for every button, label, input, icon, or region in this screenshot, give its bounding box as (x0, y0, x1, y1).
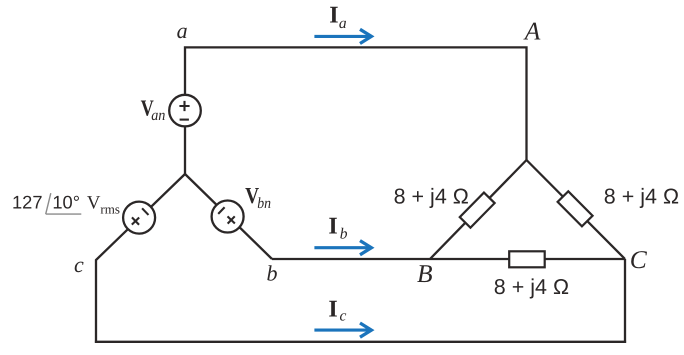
current arrow Ic (314, 323, 371, 337)
wire delta left A-B (430, 160, 527, 259)
resistor A-C 8+j4 (558, 191, 593, 226)
svg-text:a: a (339, 15, 347, 32)
angle symbol (46, 193, 82, 214)
wire neutral to c corner (96, 174, 185, 343)
svg-text:a: a (177, 18, 188, 43)
svg-text:b: b (267, 261, 278, 286)
wire C down (624, 259, 626, 343)
wire delta right A-C (527, 160, 626, 259)
svg-text:c: c (340, 308, 347, 325)
svg-text:10°: 10° (52, 192, 80, 213)
svg-text:8 + j4 Ω: 8 + j4 Ω (604, 184, 679, 208)
svg-text:I: I (328, 297, 337, 323)
svg-text:an: an (151, 107, 165, 124)
wire Van bottom to neutral n (184, 127, 186, 174)
wire b-B-C (272, 258, 625, 260)
svg-text:Vrms: Vrms (87, 193, 120, 217)
source Vbn (right branch, toward b) (212, 201, 244, 233)
source 127/10 (left branch, toward c) (123, 202, 155, 234)
source Van (169, 95, 201, 127)
svg-text:A: A (523, 17, 541, 46)
wire neutral to b corner (185, 174, 272, 259)
current arrow Ib (314, 241, 371, 255)
svg-text:8 + j4 Ω: 8 + j4 Ω (394, 185, 469, 209)
svg-text:8 + j4 Ω: 8 + j4 Ω (494, 275, 569, 299)
wire bottom c-C (95, 341, 626, 343)
current arrow Ia (314, 29, 371, 43)
svg-text:I: I (328, 214, 337, 240)
resistor A-B 8+j4 (460, 193, 495, 228)
svg-text:C: C (630, 245, 648, 274)
svg-text:c: c (74, 252, 84, 277)
svg-text:b: b (340, 226, 348, 243)
svg-text:bn: bn (257, 195, 271, 212)
resistor B-C 8+j4 (509, 251, 545, 267)
svg-text:I: I (329, 3, 338, 29)
svg-text:127: 127 (12, 192, 43, 213)
wire top a-A (185, 47, 527, 160)
svg-text:B: B (417, 259, 433, 288)
